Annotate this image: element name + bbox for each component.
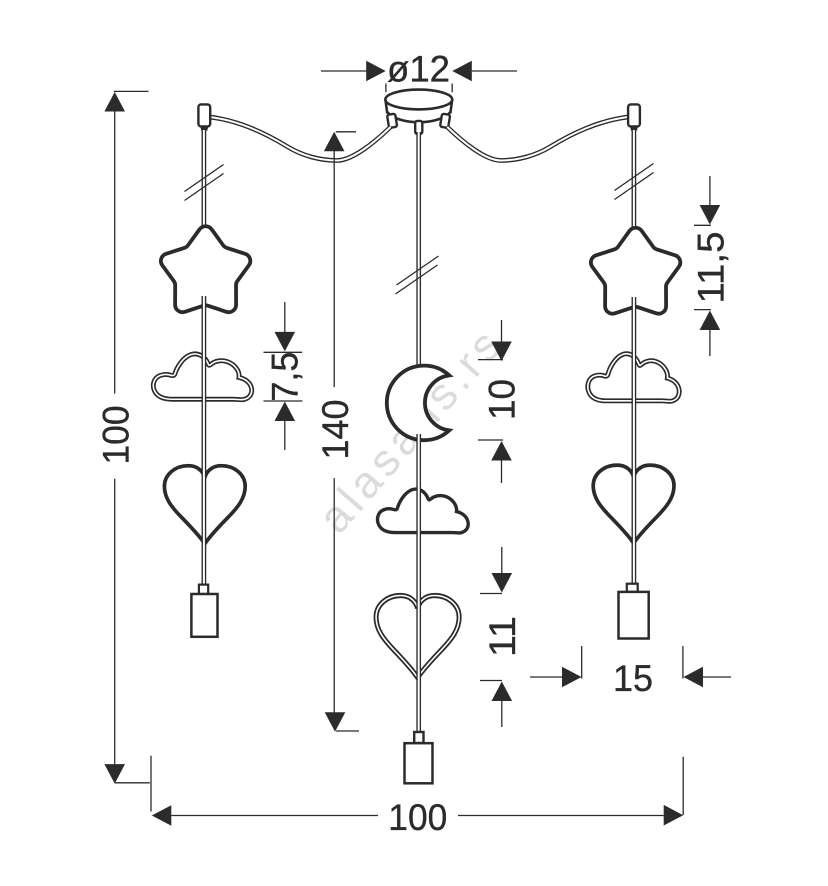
dimension 7,5 cloud height bbox=[284, 302, 286, 332]
svg-text:11: 11 bbox=[481, 616, 523, 657]
right star lamp bbox=[591, 228, 680, 314]
svg-text:11,5: 11,5 bbox=[689, 232, 731, 304]
left star lamp bbox=[161, 226, 250, 312]
center cable lower bbox=[416, 434, 421, 733]
center socket bbox=[414, 732, 423, 743]
right cable upper bbox=[632, 130, 637, 230]
svg-text:ø12: ø12 bbox=[387, 48, 450, 90]
left swag cable bbox=[210, 117, 391, 161]
center cable break mark bbox=[397, 256, 439, 285]
left heart lamp bbox=[164, 466, 245, 544]
svg-text:15: 15 bbox=[613, 657, 653, 699]
right heart lamp bbox=[593, 465, 674, 543]
center cloud lamp bbox=[377, 489, 468, 533]
left cable break mark bbox=[185, 165, 224, 192]
center moon lamp bbox=[387, 366, 450, 441]
dimension height 100 left bbox=[114, 90, 149, 92]
right cloud lamp (tube) bbox=[588, 354, 679, 402]
svg-text:140: 140 bbox=[314, 400, 356, 460]
canopy cable glands bbox=[387, 114, 450, 134]
right swag cable bbox=[447, 117, 628, 161]
svg-text:100: 100 bbox=[95, 406, 137, 465]
svg-text:10: 10 bbox=[481, 379, 523, 420]
center heart lamp (tube) bbox=[376, 596, 459, 678]
canopy ceiling cup bbox=[385, 90, 452, 123]
dimension width 100 bottom bbox=[150, 756, 152, 812]
left cable upper bbox=[202, 130, 207, 229]
left cloud lamp (tube) bbox=[153, 354, 251, 400]
right socket bbox=[627, 584, 638, 592]
center cable upper bbox=[416, 132, 421, 369]
right cable break mark bbox=[615, 164, 654, 191]
left socket bbox=[199, 585, 208, 594]
svg-text:100: 100 bbox=[388, 796, 447, 838]
right suspension connector bbox=[628, 104, 640, 126]
dimension 11,5 star height bbox=[709, 176, 711, 206]
dimension 15 star width bbox=[530, 676, 562, 678]
left suspension connector bbox=[198, 104, 210, 126]
left cable lower bbox=[202, 296, 207, 586]
dimension 11 heart height bbox=[501, 547, 503, 574]
dimension diameter 12 bbox=[321, 70, 367, 72]
dimension 10 moon height bbox=[501, 320, 503, 342]
dimension drop 140 bbox=[336, 131, 356, 133]
right cable lower bbox=[632, 297, 637, 585]
svg-text:7,5: 7,5 bbox=[264, 352, 306, 402]
